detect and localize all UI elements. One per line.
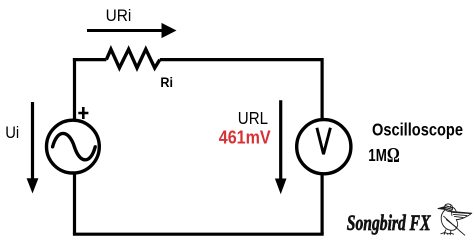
wire: bottom horizontal xyxy=(73,233,324,236)
svg-text:461mV: 461mV xyxy=(219,126,271,147)
voltage arrow Ui (pointing down) xyxy=(27,102,39,194)
svg-text:URL: URL xyxy=(238,108,268,129)
voltmeter letter V xyxy=(317,128,331,154)
logo bird icon xyxy=(438,204,472,235)
resistor Ri zigzag xyxy=(106,49,159,68)
svg-text:Ui: Ui xyxy=(5,124,19,142)
current/voltage arrow URi (pointing right) xyxy=(87,23,177,38)
voltage source U1 (AC source circle) xyxy=(47,120,100,173)
wire: top horizontal right segment from resistor to top-right corner xyxy=(160,58,322,61)
voltage source U1 sine wave symbol xyxy=(53,133,96,159)
wire: top horizontal left segment to resistor xyxy=(73,58,107,61)
svg-text:URi: URi xyxy=(106,6,132,25)
polarity plus sign at source xyxy=(78,107,88,119)
svg-text:1MΩ: 1MΩ xyxy=(368,144,399,168)
wire: left vertical from top-left corner down to source xyxy=(73,58,76,234)
voltage arrow URL (pointing down) xyxy=(275,100,287,194)
voltmeter U2 (oscilloscope input circle) xyxy=(297,120,351,174)
svg-text:Ri: Ri xyxy=(160,74,173,90)
svg-text:Songbird FX: Songbird FX xyxy=(347,212,432,236)
svg-text:Oscilloscope: Oscilloscope xyxy=(372,121,463,139)
wire: right vertical from top-right corner down to voltmeter and bottom xyxy=(321,58,324,234)
